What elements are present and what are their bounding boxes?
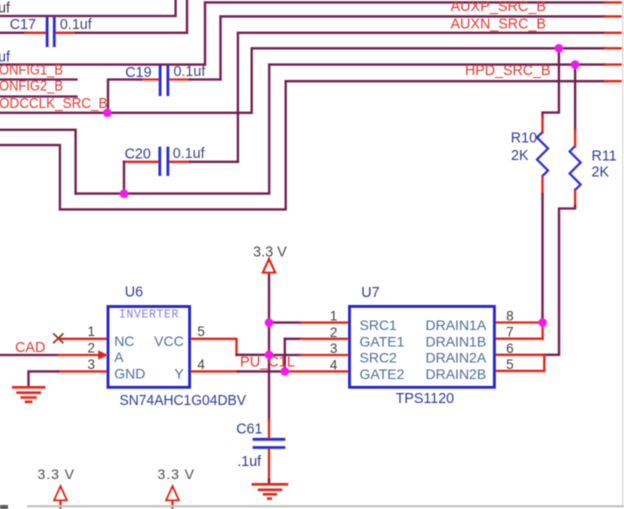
svg-text:SRC2: SRC2	[360, 350, 398, 366]
svg-text:5: 5	[197, 324, 205, 339]
svg-text:Y: Y	[174, 366, 184, 382]
svg-text:2K: 2K	[592, 165, 610, 181]
wire U7 pin8 to pin7 riser	[541, 323, 543, 339]
wire C19 left drop to ODCCLK	[108, 80, 141, 113]
node rail SRC1	[265, 318, 274, 327]
wire U7 pin7 stub	[494, 338, 542, 340]
svg-text:R10: R10	[511, 131, 537, 147]
wire U7 pin3 stub	[301, 354, 350, 356]
svg-text:HPD_SRC_B: HPD_SRC_B	[465, 63, 551, 79]
wire F row to riser and row 64.6	[76, 65, 605, 194]
wire U7 pin2 stub	[301, 338, 350, 340]
svg-text:uf: uf	[0, 49, 10, 65]
svg-text:1: 1	[330, 309, 338, 324]
wire C17 row left segment	[0, 32, 25, 34]
wire U6 pin1 stub	[58, 338, 108, 340]
wire R11 bottom lead	[574, 190, 576, 207]
input arrow into U6 pin2	[98, 350, 108, 359]
wire HPD_SRC_B row	[0, 81, 605, 209]
capacitor C19	[160, 65, 168, 96]
svg-text:DRAIN2B: DRAIN2B	[426, 366, 487, 382]
svg-text:GND: GND	[114, 366, 145, 382]
wire net1 top-left to top edge	[0, 0, 176, 16]
svg-text:4: 4	[197, 357, 205, 372]
svg-text:INVERTER: INVERTER	[119, 308, 179, 321]
svg-text:0.1uf: 0.1uf	[174, 64, 206, 80]
wire AUXP_SRC_B red end	[605, 15, 622, 17]
svg-text:3.3 V: 3.3 V	[38, 466, 75, 482]
svg-text:6: 6	[506, 341, 514, 356]
resistor R11	[570, 146, 581, 190]
wire CONFIG2_B	[0, 95, 77, 97]
power 3.3V symbol above rail	[253, 245, 287, 273]
wire ODCCLK_SRC_B row	[0, 48, 605, 113]
wire C20 left lead	[124, 161, 159, 163]
capacitor C20	[160, 147, 168, 176]
page bottom-left corner mark	[0, 505, 8, 509]
wire F left arm	[0, 130, 76, 194]
svg-text:0.1uf: 0.1uf	[60, 17, 92, 33]
ground below C61	[252, 484, 289, 498]
wire C61 bottom lead	[268, 448, 270, 480]
svg-text:3: 3	[330, 341, 338, 356]
svg-text:uf: uf	[0, 1, 10, 17]
wire Y junction to U7 GATE2	[285, 370, 350, 372]
wire C20 left drop to junction	[123, 162, 125, 194]
wire C19 right to riser	[190, 78, 221, 80]
wire GATE1 row	[285, 338, 301, 340]
page bottom border line	[27, 505, 624, 507]
svg-text:R11: R11	[592, 149, 617, 165]
svg-text:U6: U6	[125, 285, 143, 301]
svg-text:C17: C17	[10, 17, 36, 33]
wire F red end	[605, 63, 622, 65]
node DRAIN1A/R10	[538, 318, 547, 327]
svg-text:3.3 V: 3.3 V	[253, 245, 287, 261]
svg-text:DRAIN2A: DRAIN2A	[426, 350, 487, 366]
svg-text:5: 5	[506, 357, 514, 372]
node junction dots	[103, 44, 579, 376]
svg-text:2K: 2K	[511, 148, 529, 164]
svg-text:PU_C1L: PU_C1L	[240, 355, 295, 371]
svg-text:NC: NC	[114, 333, 134, 349]
wire net B red end	[605, 1, 622, 3]
wire AUXN_SRC_B red end	[605, 32, 622, 34]
wire U7 pin3 from rail	[269, 354, 301, 356]
wire U7 pin5 riser	[543, 355, 545, 371]
op-amp U7 box	[350, 306, 495, 387]
svg-text:GATE2: GATE2	[360, 366, 405, 382]
svg-text:3: 3	[87, 357, 95, 372]
wire U7 pin1 stub	[301, 321, 350, 323]
wire C20 right lead	[169, 161, 190, 163]
svg-text:2: 2	[330, 325, 338, 340]
svg-text:3.3 V: 3.3 V	[158, 466, 195, 482]
wire U7 pin6 stub	[494, 354, 544, 356]
wire U6 pin3 stub	[58, 370, 108, 372]
wire C17 right lead	[55, 32, 76, 34]
svg-text:.1uf: .1uf	[237, 454, 261, 470]
svg-text:AUXP_SRC_B: AUXP_SRC_B	[451, 0, 547, 15]
svg-text:U7: U7	[361, 285, 379, 301]
wire U7 pin1 from rail	[269, 321, 301, 323]
wire C61 to ground	[268, 480, 270, 484]
wire U6 pin3 to ground	[29, 371, 59, 385]
wire net B left (row 64.6 to top row 1.3)	[0, 2, 605, 64]
svg-text:0.1uf: 0.1uf	[173, 146, 205, 162]
wire AUXP_SRC_B row	[221, 16, 606, 79]
svg-text:C19: C19	[125, 65, 151, 81]
capacitor C17	[47, 17, 54, 47]
no-connect X on U6 pin1	[53, 333, 63, 343]
svg-text:AUXN_SRC_B: AUXN_SRC_B	[451, 16, 547, 32]
wire ODCCLK red end	[605, 47, 622, 49]
svg-text:A: A	[114, 349, 124, 365]
node Y/GATE	[281, 367, 290, 376]
wire C20 right to riser	[190, 161, 238, 163]
svg-text:1: 1	[87, 324, 95, 339]
svg-text:C61: C61	[236, 422, 262, 438]
svg-text:SN74AHC1G04DBV: SN74AHC1G04DBV	[120, 393, 247, 409]
wire CONFIG1_B	[0, 78, 77, 80]
wire C61 top lead	[268, 420, 270, 438]
svg-text:4: 4	[330, 357, 338, 372]
power 3.3V symbol bottom-left 1	[38, 466, 75, 509]
wire U6 pin2 stub	[58, 354, 97, 356]
wire C19 left lead	[141, 78, 159, 80]
wire R10 drop from node	[543, 48, 559, 117]
wire R11 drop from node	[574, 65, 576, 131]
power 3.3V symbol bottom-left 2	[158, 466, 195, 509]
node ODCCLK/C19	[103, 109, 112, 118]
wire R10 top lead	[541, 116, 543, 133]
svg-text:7: 7	[506, 325, 514, 340]
wire R11 top lead	[574, 131, 576, 147]
svg-text:2: 2	[87, 341, 95, 356]
wire U6 pin2 net from left edge	[0, 354, 58, 356]
wire R11 bottom jog to U7 pin6	[544, 206, 575, 355]
page right border line	[622, 0, 624, 505]
svg-text:VCC: VCC	[154, 333, 184, 349]
wire U6 pin5 to rail	[237, 354, 270, 356]
svg-text:CAD: CAD	[15, 340, 45, 356]
svg-text:ODCCLK_SRC_B: ODCCLK_SRC_B	[0, 96, 108, 112]
wire C17 left lead	[25, 32, 46, 34]
wire GATE riser	[284, 339, 286, 372]
op-amp U6 box	[108, 307, 190, 388]
wire U6 pin4 Y stub	[190, 370, 238, 372]
node R11 top	[571, 60, 580, 69]
wire R10 bottom lead	[541, 176, 543, 195]
wire C17 to top edge	[76, 0, 187, 33]
wire U7 pin5 stub	[494, 370, 544, 372]
capacitor C61	[253, 439, 286, 447]
svg-text:ONFIG2_B: ONFIG2_B	[0, 79, 63, 95]
svg-text:8: 8	[506, 309, 514, 324]
wire C19 right lead	[169, 78, 190, 80]
node rail VCC/SRC2	[265, 351, 274, 360]
wire 3.3V rail down to C61	[268, 274, 270, 421]
svg-text:SRC1: SRC1	[360, 317, 398, 333]
resistor R10	[537, 132, 548, 176]
svg-text:GATE1: GATE1	[360, 333, 405, 349]
wire R10 bottom to U7 pin8 node	[541, 194, 543, 323]
node R10 top	[555, 44, 564, 53]
svg-text:TPS1120: TPS1120	[396, 391, 455, 407]
ground at U6 pin3	[12, 387, 46, 402]
svg-text:DRAIN1B: DRAIN1B	[426, 333, 487, 349]
wire U6 pin5 stub	[190, 339, 237, 355]
wire U7 pin8 stub	[494, 321, 542, 323]
wire AUXN_SRC_B row	[238, 33, 605, 162]
svg-text:DRAIN1A: DRAIN1A	[426, 317, 487, 333]
wire Y to junction	[238, 370, 285, 372]
svg-text:C20: C20	[125, 146, 151, 162]
wire HPD red end	[605, 80, 622, 82]
node C20/wireF	[120, 189, 129, 198]
